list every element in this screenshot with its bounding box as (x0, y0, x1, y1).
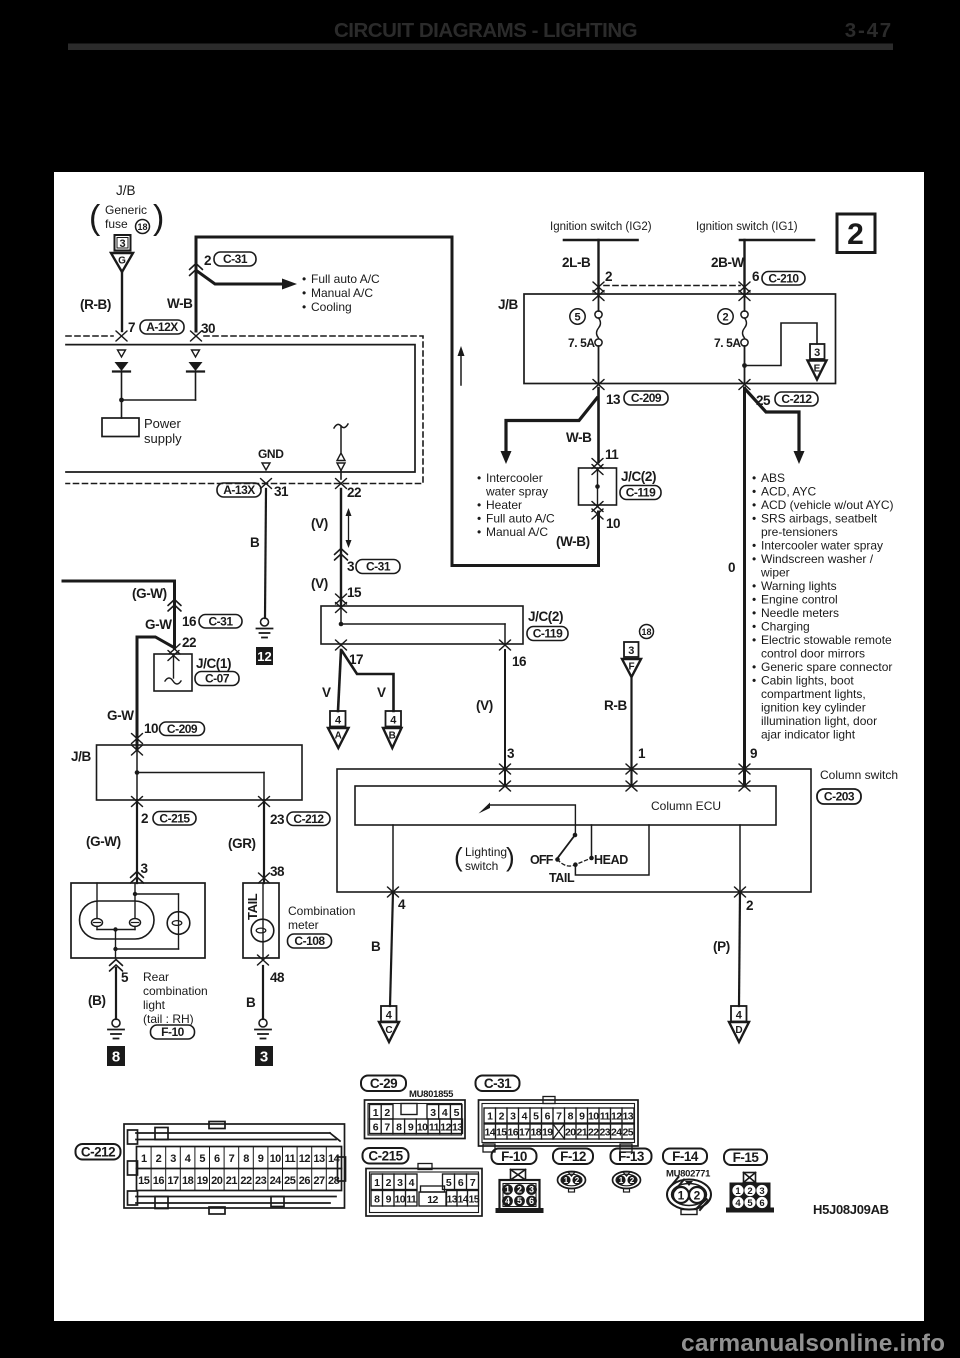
svg-text:ignition key cylinder: ignition key cylinder (761, 701, 866, 715)
svg-text:ACD (vehicle w/out AYC): ACD (vehicle w/out AYC) (761, 498, 894, 512)
svg-text:24: 24 (270, 1175, 283, 1187)
TAIL wire (575, 825, 649, 875)
switch pole (573, 833, 578, 838)
svg-text:16: 16 (153, 1175, 165, 1187)
svg-text:2: 2 (386, 1177, 392, 1189)
svg-text:12: 12 (299, 1153, 311, 1165)
svg-text:19: 19 (542, 1127, 553, 1139)
chevrons on W-B wire (190, 264, 203, 270)
svg-text:30: 30 (201, 321, 215, 336)
pin 17 (336, 640, 347, 650)
connector C-212 label (76, 1144, 121, 1160)
svg-text:B: B (371, 939, 381, 954)
svg-text:•: • (752, 593, 756, 607)
circled 18 (136, 220, 150, 234)
G-W wire to J/B (137, 637, 173, 749)
svg-text:6: 6 (373, 1122, 379, 1134)
svg-text:4: 4 (522, 1111, 528, 1123)
svg-text:(: ( (89, 199, 101, 237)
svg-text:C-119: C-119 (626, 486, 656, 500)
connector C-31 body (479, 1097, 639, 1153)
svg-text:•: • (302, 286, 306, 300)
ECU internal arrow (489, 805, 575, 834)
svg-text:3: 3 (119, 238, 125, 250)
page ref box 2 (837, 214, 875, 253)
svg-text:•: • (752, 485, 756, 499)
svg-text:Column switch: Column switch (820, 768, 898, 782)
svg-text:supply: supply (144, 431, 182, 446)
J/C(1) box C-07 (154, 654, 192, 691)
svg-text:SRS airbags, seatbelt: SRS airbags, seatbelt (761, 512, 878, 526)
wire R-B (630, 677, 632, 786)
pin 22 (336, 479, 347, 489)
svg-text:Intercooler water spray: Intercooler water spray (761, 539, 883, 553)
svg-text:Ignition switch (IG1): Ignition switch (IG1) (696, 221, 798, 233)
svg-text:13: 13 (622, 1111, 633, 1123)
svg-text:15: 15 (496, 1127, 507, 1139)
svg-text:W-B: W-B (167, 296, 193, 311)
svg-text:Column ECU: Column ECU (651, 799, 721, 813)
svg-text:1: 1 (505, 1185, 510, 1195)
svg-text:Windscreen washer /: Windscreen washer / (761, 552, 874, 566)
svg-text:5: 5 (533, 1111, 539, 1123)
svg-text:Cooling: Cooling (311, 300, 352, 314)
svg-text:23: 23 (255, 1175, 267, 1187)
svg-text:4: 4 (398, 897, 406, 912)
bold arrow from pin 25 to systems list (746, 390, 799, 452)
svg-text:14: 14 (328, 1153, 341, 1165)
diode D2 (187, 362, 204, 372)
svg-text:2: 2 (156, 1153, 162, 1165)
svg-text:20: 20 (565, 1127, 576, 1139)
svg-text:J/C(2): J/C(2) (621, 469, 656, 484)
svg-text:2L-B: 2L-B (562, 255, 591, 270)
svg-text:3: 3 (397, 1177, 403, 1189)
svg-text:5: 5 (517, 1196, 522, 1206)
pin 2 connector C-215 (132, 797, 143, 807)
svg-text:•: • (477, 525, 481, 539)
svg-text:10: 10 (588, 1111, 599, 1123)
top bus wire to A/C systems (196, 237, 599, 566)
svg-text:•: • (752, 660, 756, 674)
svg-text:C-215: C-215 (159, 812, 190, 826)
svg-text:meter: meter (288, 918, 319, 932)
svg-text:illumination light, door: illumination light, door (761, 714, 877, 728)
svg-text:9: 9 (579, 1111, 585, 1123)
svg-text:ACD, AYC: ACD, AYC (761, 485, 816, 499)
svg-text:25: 25 (284, 1175, 296, 1187)
connector C-212 body (124, 1122, 346, 1215)
svg-text:C-212: C-212 (81, 1145, 115, 1160)
internal wires (96, 883, 98, 918)
svg-text:(V): (V) (476, 698, 493, 713)
dashed gang line (558, 858, 592, 866)
svg-text:6: 6 (458, 1177, 464, 1189)
pin 48 (258, 955, 269, 965)
wire (P) to D ref (739, 892, 740, 1006)
triangle A (328, 728, 349, 748)
svg-text:4: 4 (386, 1010, 393, 1022)
svg-text:): ) (506, 842, 515, 872)
svg-text:6: 6 (529, 1196, 534, 1206)
wire B to C ref (390, 892, 393, 1006)
svg-text:B: B (250, 535, 260, 550)
svg-text:18: 18 (530, 1127, 541, 1139)
svg-text:C-29: C-29 (370, 1076, 397, 1091)
svg-text:GND: GND (258, 447, 284, 461)
ground (257, 618, 273, 638)
svg-text:24: 24 (611, 1127, 622, 1139)
connector mark right diode branch (192, 350, 200, 357)
svg-text:2: 2 (575, 1176, 580, 1185)
svg-text:12: 12 (611, 1111, 622, 1123)
svg-text:16: 16 (182, 614, 197, 629)
internal bottom wiring (96, 927, 98, 930)
diode D1 (113, 362, 130, 372)
svg-text:F: F (628, 662, 634, 673)
svg-text:J/B: J/B (116, 183, 136, 198)
svg-text:1: 1 (141, 1153, 147, 1165)
svg-text:8: 8 (112, 1049, 120, 1066)
svg-text:TAIL: TAIL (549, 871, 575, 885)
connector F-12 body (568, 1172, 575, 1176)
svg-text:C-212: C-212 (781, 392, 812, 406)
svg-text:TAIL: TAIL (245, 893, 260, 920)
svg-text:light: light (143, 998, 166, 1012)
svg-text:(G-W): (G-W) (132, 586, 167, 601)
svg-text:5: 5 (574, 312, 580, 324)
internal bus (340, 606, 342, 624)
svg-text:26: 26 (299, 1175, 311, 1187)
HEAD wire (591, 825, 593, 858)
svg-text:F-13: F-13 (618, 1149, 645, 1164)
svg-text:wiper: wiper (760, 566, 790, 580)
svg-text:J/C(2): J/C(2) (528, 609, 563, 624)
pin 10 (592, 502, 603, 512)
svg-text:22: 22 (182, 635, 196, 650)
fuse 5 7.5A (598, 294, 600, 311)
svg-text:2: 2 (499, 1111, 505, 1123)
svg-text:•: • (752, 579, 756, 593)
connector F-15 body (744, 1173, 756, 1183)
connector C-108 (288, 934, 332, 948)
svg-text:7: 7 (384, 1122, 390, 1134)
svg-text:6: 6 (752, 269, 760, 284)
svg-text:(tail : RH): (tail : RH) (143, 1012, 194, 1026)
wire B (262, 966, 264, 1019)
svg-text:8: 8 (568, 1111, 574, 1123)
svg-text:•: • (302, 300, 306, 314)
svg-text:C-07: C-07 (205, 672, 230, 686)
bulb tail left (92, 919, 103, 927)
internal wiring (136, 750, 138, 800)
svg-text:C-210: C-210 (768, 272, 799, 286)
svg-text:2: 2 (746, 898, 753, 913)
svg-text:2: 2 (630, 1176, 635, 1185)
svg-text:15: 15 (468, 1194, 479, 1206)
ref box 4 (B) (386, 711, 402, 727)
svg-text:ajar indicator light: ajar indicator light (761, 728, 856, 742)
svg-text:1: 1 (735, 1186, 741, 1197)
svg-text:4: 4 (335, 715, 342, 727)
svg-text:4: 4 (409, 1177, 415, 1189)
svg-text:G: G (118, 256, 126, 267)
bold arrow branch to intercooler list (506, 398, 597, 452)
svg-text:10: 10 (144, 721, 158, 736)
svg-text:12: 12 (257, 649, 271, 664)
svg-text:MU801855: MU801855 (409, 1089, 454, 1100)
svg-text:Generic spare connector: Generic spare connector (761, 660, 892, 674)
connector F-15 label (724, 1150, 767, 1166)
OFF contact (555, 857, 560, 862)
svg-text:Combination: Combination (288, 904, 355, 918)
svg-text:control door mirrors: control door mirrors (761, 647, 865, 661)
svg-text:•: • (752, 674, 756, 688)
svg-text:23: 23 (599, 1127, 610, 1139)
svg-text:W-B: W-B (566, 430, 592, 445)
wire (B) (115, 968, 117, 1019)
white page (54, 172, 924, 1321)
svg-text:combination: combination (143, 984, 208, 998)
svg-text:•: • (752, 498, 756, 512)
svg-text:C-215: C-215 (368, 1149, 403, 1164)
svg-text:3: 3 (507, 746, 515, 761)
svg-text:•: • (752, 552, 756, 566)
svg-text:27: 27 (313, 1175, 325, 1187)
svg-text:10: 10 (394, 1194, 405, 1206)
feed triangle G (111, 253, 133, 272)
ref box 4 (A) (330, 711, 346, 727)
thick tail feed wire (63, 581, 175, 648)
wire (R-B) (121, 272, 123, 331)
triangle E (808, 361, 827, 380)
svg-text:•: • (752, 539, 756, 553)
ground (108, 1019, 124, 1039)
connector F-14 label (663, 1149, 707, 1165)
pin 23 connector C-212 (259, 797, 270, 807)
svg-text:Intercooler: Intercooler (486, 471, 543, 485)
svg-text:21: 21 (576, 1127, 587, 1139)
svg-text:C-108: C-108 (294, 934, 325, 948)
C-212 pin numbers (151, 1147, 326, 1191)
svg-text:(V): (V) (311, 516, 328, 531)
svg-text:7: 7 (556, 1111, 562, 1123)
svg-text:2: 2 (605, 269, 612, 284)
svg-text:V: V (322, 685, 331, 700)
svg-text:Electric stowable remote: Electric stowable remote (761, 633, 892, 647)
bulb tail right (130, 919, 141, 927)
svg-text:31: 31 (274, 484, 289, 499)
header rule (68, 44, 893, 51)
svg-text:4: 4 (735, 1198, 741, 1209)
svg-text:2: 2 (384, 1107, 390, 1119)
svg-text:16: 16 (512, 654, 527, 669)
ref box 4 (C) (381, 1006, 397, 1022)
svg-text:11: 11 (600, 1111, 611, 1123)
svg-text:(B): (B) (88, 993, 106, 1008)
svg-text:2: 2 (517, 1185, 522, 1195)
svg-text:Ignition switch (IG2): Ignition switch (IG2) (550, 221, 652, 233)
svg-text:C-31: C-31 (484, 1076, 512, 1091)
svg-text:18: 18 (137, 222, 147, 232)
svg-text:G-W: G-W (145, 617, 172, 632)
svg-text:13: 13 (452, 1122, 463, 1134)
svg-text:C-209: C-209 (167, 722, 198, 736)
pin 4 exit wire (392, 825, 394, 892)
svg-text:7: 7 (229, 1153, 235, 1165)
pin 31 connector A-13X (261, 479, 272, 489)
ref box 3 (E) (810, 344, 825, 359)
svg-text:18: 18 (641, 627, 651, 637)
svg-text:3: 3 (510, 1111, 516, 1123)
svg-text:6: 6 (545, 1111, 551, 1123)
svg-text:water spray: water spray (485, 485, 548, 499)
svg-text:1: 1 (374, 1177, 380, 1189)
svg-text:•: • (752, 633, 756, 647)
dashed link between ignition feeds (604, 285, 740, 287)
svg-text:4: 4 (390, 715, 397, 727)
svg-text:4: 4 (505, 1196, 510, 1206)
svg-text:B: B (246, 995, 256, 1010)
svg-text:B: B (389, 731, 396, 742)
connector F-10 (151, 1025, 195, 1039)
meter lamp (251, 919, 274, 942)
svg-text:Cabin lights, boot: Cabin lights, boot (761, 674, 854, 688)
meter box (243, 883, 279, 958)
wire 2L-B (597, 240, 599, 294)
svg-text:2: 2 (722, 312, 728, 324)
svg-text:17: 17 (167, 1175, 179, 1187)
svg-text:16: 16 (507, 1127, 518, 1139)
fuse 2 7.5A (744, 294, 746, 311)
fuse number box 3 (115, 235, 131, 251)
svg-text:3: 3 (529, 1185, 534, 1195)
svg-text:2: 2 (747, 1186, 752, 1197)
solid power supply box (66, 345, 415, 472)
branch arrow to A/C note (197, 271, 283, 284)
svg-text:5: 5 (446, 1177, 452, 1189)
svg-text:3: 3 (759, 1186, 764, 1197)
svg-text:ABS: ABS (761, 471, 785, 485)
svg-text:15: 15 (347, 585, 362, 600)
svg-text:•: • (752, 512, 756, 526)
svg-text:Power: Power (144, 416, 182, 431)
svg-text:pre-tensioners: pre-tensioners (761, 525, 838, 539)
svg-text:HEAD: HEAD (594, 853, 628, 867)
svg-text:1: 1 (638, 746, 646, 761)
dashed junction block outline (66, 335, 113, 337)
wire (V) (504, 650, 506, 786)
svg-text:C-203: C-203 (824, 790, 855, 804)
svg-text:•: • (752, 620, 756, 634)
connector F-13 body (623, 1172, 630, 1176)
svg-text:carmanualsonline.info: carmanualsonline.info (681, 1330, 945, 1357)
svg-text:5: 5 (121, 970, 129, 985)
svg-text:3: 3 (430, 1107, 436, 1119)
svg-text:F-14: F-14 (672, 1149, 699, 1164)
svg-text:V: V (377, 685, 386, 700)
svg-text:A-13X: A-13X (223, 483, 255, 497)
svg-text:22: 22 (240, 1175, 252, 1187)
svg-text:8: 8 (396, 1122, 402, 1134)
pin 5 exit (110, 960, 123, 966)
svg-text:F-12: F-12 (560, 1149, 586, 1164)
svg-text:C-209: C-209 (631, 391, 662, 405)
twin bulb obround (80, 901, 155, 939)
svg-text:Generic: Generic (105, 203, 147, 217)
svg-text:•: • (302, 272, 306, 286)
svg-text:J/B: J/B (71, 749, 91, 764)
connector F-13 label (611, 1149, 652, 1165)
svg-text:10: 10 (606, 516, 620, 531)
svg-text:2: 2 (204, 253, 211, 268)
svg-text:6: 6 (759, 1198, 764, 1209)
svg-text:13: 13 (606, 392, 621, 407)
svg-text:Engine control: Engine control (761, 593, 838, 607)
lamp bulb (167, 912, 190, 935)
svg-text:10: 10 (417, 1122, 428, 1134)
svg-text:9: 9 (258, 1153, 264, 1165)
wire W-B vertical (195, 237, 198, 331)
svg-text:Manual A/C: Manual A/C (311, 286, 373, 300)
svg-text:48: 48 (270, 970, 285, 985)
chevrons (168, 600, 181, 606)
svg-text:F-15: F-15 (733, 1150, 760, 1165)
svg-text:G-W: G-W (107, 708, 134, 723)
pin 30 (191, 331, 202, 341)
svg-text:3: 3 (260, 1049, 268, 1066)
wire B (265, 489, 266, 618)
svg-text:3: 3 (347, 559, 355, 574)
ref box 4 (D) (731, 1006, 747, 1022)
svg-text:28: 28 (328, 1175, 340, 1187)
circled 18 (640, 625, 654, 639)
svg-text:(R-B): (R-B) (80, 297, 111, 312)
svg-text:15: 15 (138, 1175, 150, 1187)
connector C-29 body (365, 1100, 466, 1139)
svg-text:E: E (814, 364, 821, 375)
svg-text:22: 22 (588, 1127, 599, 1139)
wire V right branch (342, 651, 394, 711)
F-10 pins (502, 1184, 537, 1206)
HEAD contact (589, 856, 594, 861)
svg-text:OFF: OFF (530, 853, 554, 867)
power supply box (102, 418, 139, 437)
svg-text:17: 17 (519, 1127, 530, 1139)
svg-text:Full auto A/C: Full auto A/C (486, 512, 555, 526)
svg-text:11: 11 (605, 447, 619, 462)
wire (195, 372, 197, 401)
page ref box 3 (255, 1046, 273, 1066)
svg-text:C-212: C-212 (293, 812, 324, 826)
triangle F (622, 659, 641, 677)
pin 7 connector A-12X (116, 331, 127, 341)
C-31 blocked pin (553, 1124, 565, 1139)
svg-text:C-31: C-31 (366, 560, 391, 574)
svg-text:3-47: 3-47 (845, 19, 893, 42)
svg-text:F-10: F-10 (161, 1025, 185, 1039)
svg-text:2: 2 (847, 218, 864, 251)
svg-text:(W-B): (W-B) (556, 534, 590, 549)
chevrons (335, 549, 348, 555)
svg-text:switch: switch (465, 859, 498, 873)
J/B fuse box (524, 294, 836, 384)
wire (G-W) to rear light (136, 800, 138, 883)
svg-text:7: 7 (128, 320, 135, 335)
svg-text:5: 5 (747, 1198, 753, 1209)
svg-text:Heater: Heater (486, 498, 522, 512)
svg-text:Warning lights: Warning lights (761, 579, 837, 593)
